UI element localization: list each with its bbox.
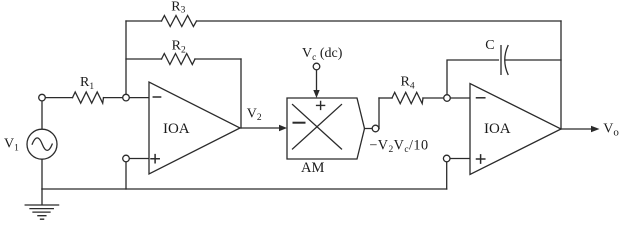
resistor R1 [73,92,104,103]
svg-text:−V2Vc/10: −V2Vc/10 [369,137,428,155]
wire AM output up to R4 [378,98,380,129]
wire right vertical (R3 to op-amp 2 output) [560,21,562,129]
multiplier AM body [287,98,365,159]
wire input from terminal to R1 [42,97,73,99]
op-amp U1 plus sign [151,155,159,163]
op-amp U2 plus sign [477,155,485,163]
op-amp U2 minus sign [477,97,485,99]
node circle AM output [372,125,379,132]
wire op-amp 2 + node to rail [446,159,448,190]
node circle op-amp2 noninverting [443,155,450,162]
wire op-amp 1 + node to rail [125,159,127,190]
node B circle (op-amp2 inverting) [444,95,451,102]
wire op-amp 1 noninverting input [126,158,149,160]
resistor R3 [162,16,197,27]
resistor R2 [162,54,196,65]
svg-text:IOA: IOA [163,121,190,137]
AM plus sign [317,101,325,109]
wire capacitor to output [505,59,561,61]
source V1 circle [27,129,57,159]
wire op-amp 1 output to AM [240,127,281,129]
terminal circle input [39,94,46,101]
wire Vc input [316,67,318,95]
svg-text:R3: R3 [171,0,185,16]
wire bottom rail [42,188,447,190]
op-amp U1 IOA [149,82,240,174]
wire capacitor tap [447,60,498,98]
node A circle (op-amp1 inverting) [123,94,130,101]
wire R2 down to op-amp 1 output [240,59,242,128]
AM X symbol [293,105,342,150]
svg-text:R2: R2 [172,38,186,55]
svg-text:C: C [485,38,494,53]
wire top feedback run (R3 net) [126,20,561,22]
svg-text:V1: V1 [4,137,19,154]
wire R2 run [126,58,241,60]
arrowhead into AM [279,125,287,131]
svg-text:R1: R1 [80,75,94,92]
wire source V1 bottom [41,159,43,189]
wire AM output [365,128,380,130]
resistor R4 [392,92,423,103]
wire op-amp 2 output [561,128,592,130]
wire to R4 [379,97,392,99]
svg-text:IOA: IOA [484,121,511,137]
wire left vertical (node A to R3/R2) [125,21,127,98]
capacitor C [501,46,508,75]
wire source V1 top [41,98,43,130]
svg-text:Vc (dc): Vc (dc) [302,46,343,63]
svg-text:V2: V2 [247,107,262,123]
wire R1 to node A [104,97,150,99]
terminal circle Vc [313,63,320,70]
svg-text:AM: AM [301,160,324,176]
op-amp U1 minus sign [153,96,160,98]
arrowhead Vc into AM [313,90,319,98]
sine symbol [32,138,52,151]
op-amp U2 IOA [470,84,561,175]
AM minus sign [294,122,305,124]
svg-text:R4: R4 [401,74,415,91]
ground [25,189,58,219]
svg-text:Vo: Vo [603,121,619,138]
node circle op-amp1 noninverting [123,155,130,162]
wire op-amp 2 noninverting input [447,158,470,160]
wire R4 to node B [423,97,470,99]
arrowhead Vo [591,126,600,133]
